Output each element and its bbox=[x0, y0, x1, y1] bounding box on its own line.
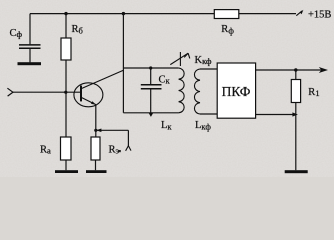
wire Rb top lead bbox=[65, 14, 67, 38]
power arrow +15V bbox=[296, 11, 302, 16]
svg-text:Lк: Lк bbox=[161, 120, 172, 131]
wire Lkf bottom to PKF bbox=[200, 113, 217, 115]
arrowhead on emitter branch end (points up) bbox=[126, 146, 131, 151]
wire Ra to ground bbox=[65, 160, 67, 170]
resistor R1 bbox=[291, 80, 300, 103]
svg-text:ПКФ: ПКФ bbox=[222, 84, 251, 99]
junction dot (Ck at tank top) bbox=[149, 66, 152, 69]
junction dot (emitter node) bbox=[94, 129, 97, 132]
resistor Rf bbox=[214, 10, 239, 19]
wire emitter branch horizontal bbox=[96, 129, 129, 131]
transistor emitter arrowhead bbox=[91, 101, 96, 104]
wire PKF output top bbox=[256, 69, 322, 71]
wire Re to ground bbox=[95, 160, 97, 170]
ground (Re) bbox=[86, 170, 107, 173]
wire tank top bbox=[123, 67, 178, 69]
wire PKF output bottom bbox=[256, 114, 293, 116]
svg-text:Rб: Rб bbox=[72, 24, 83, 35]
junction dot (collector feed at rail) bbox=[122, 12, 125, 15]
wire emitter branch down with arrow bbox=[127, 130, 129, 146]
svg-text:+15В: +15В bbox=[308, 10, 331, 21]
svg-text:Lкф: Lкф bbox=[195, 120, 211, 131]
arrowhead bottom wire (points right) bbox=[292, 112, 298, 116]
svg-text:Cф: Cф bbox=[10, 28, 23, 39]
svg-text:Rа: Rа bbox=[40, 144, 51, 155]
inductor Lk bbox=[179, 68, 185, 113]
junction dot (output top) bbox=[294, 68, 297, 71]
svg-text:Cк: Cк bbox=[159, 75, 171, 86]
wire Lkf top to PKF bbox=[200, 68, 217, 70]
ground (R1) bbox=[285, 170, 308, 173]
resistor Rb bbox=[61, 38, 71, 60]
resistor Ra bbox=[61, 137, 72, 160]
junction dot (base node) bbox=[64, 91, 67, 94]
svg-text:Rф: Rф bbox=[221, 24, 234, 35]
wire Ck top lead bbox=[150, 68, 152, 84]
ground (Ra) bbox=[55, 170, 78, 173]
wire top supply rail bbox=[30, 13, 296, 15]
svg-text:R1: R1 bbox=[308, 87, 319, 98]
wire Ck bottom lead bbox=[150, 89, 152, 113]
wire tank bottom bbox=[123, 112, 178, 114]
wire emitter vertical bbox=[95, 105, 97, 137]
input arrow bbox=[7, 88, 12, 96]
capacitor Cf plates bbox=[19, 45, 41, 48]
wire Rb bottom lead to base node and Ra bbox=[65, 60, 67, 137]
wire Cf bottom lead bbox=[29, 49, 31, 63]
wire R1 top lead bbox=[295, 70, 297, 80]
ground (Cf) bbox=[18, 62, 42, 65]
arrowhead on emitter branch (points left) bbox=[96, 129, 101, 133]
transistor VT1 bbox=[74, 70, 124, 107]
inductor Lkf bbox=[194, 69, 200, 114]
wire collector feed vertical bbox=[122, 14, 124, 113]
junction dot (Rb at rail) bbox=[64, 12, 67, 15]
variable coupling arrow Kkf bbox=[170, 52, 190, 66]
arrowhead at Ck bottom (points down) bbox=[149, 113, 154, 117]
block PKF bbox=[217, 63, 255, 118]
capacitor Ck plates bbox=[141, 85, 162, 89]
output arrowhead (points right) bbox=[319, 67, 328, 73]
svg-text:Kкф: Kкф bbox=[195, 55, 213, 66]
svg-text:Rэ: Rэ bbox=[109, 144, 120, 155]
wire Cf top lead bbox=[29, 14, 31, 45]
resistor Re bbox=[91, 137, 100, 160]
wire base input bbox=[13, 91, 80, 93]
wire R1 bottom lead to ground bbox=[295, 103, 297, 171]
stray scan speck bbox=[119, 150, 121, 152]
